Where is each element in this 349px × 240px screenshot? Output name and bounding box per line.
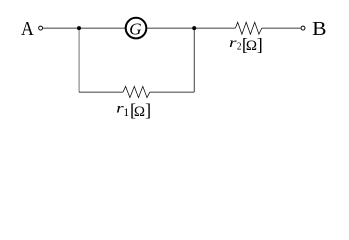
wire galvanometer to node J2 bbox=[146, 27, 194, 29]
galvanometer G (circle) bbox=[126, 18, 147, 39]
svg-text:1: 1 bbox=[123, 105, 129, 119]
wire J1 down (left vertical) bbox=[78, 28, 80, 92]
svg-text:2: 2 bbox=[237, 42, 242, 53]
resistor r2 (zigzag) bbox=[235, 22, 261, 34]
terminal B (open circle) bbox=[301, 26, 305, 30]
wire J1 to galvanometer bbox=[79, 27, 126, 29]
wire J2 to resistor r2 bbox=[194, 27, 235, 29]
svg-text:]: ] bbox=[145, 100, 151, 120]
terminal A (open circle) bbox=[39, 26, 43, 30]
wire resistor r1 to bottom right bbox=[150, 91, 194, 93]
node J1 (junction dot) bbox=[77, 26, 81, 30]
wire r2 to terminal B bbox=[262, 27, 301, 29]
wire bottom left to resistor r1 bbox=[79, 91, 123, 93]
node J2 (junction dot) bbox=[192, 26, 196, 30]
svg-text:B: B bbox=[312, 18, 326, 40]
svg-text:]: ] bbox=[257, 35, 263, 55]
svg-text:G: G bbox=[129, 19, 141, 38]
resistor r1 (zigzag) bbox=[123, 86, 150, 97]
svg-text:Ω: Ω bbox=[134, 104, 145, 120]
svg-text:Ω: Ω bbox=[246, 38, 257, 54]
resistor r2 value label r2[ohm] bbox=[229, 35, 263, 55]
svg-text:A: A bbox=[21, 18, 34, 40]
resistor r1 value label r1[ohm] bbox=[116, 100, 151, 120]
wire A to node J1 bbox=[43, 27, 79, 29]
wire J2 down (right vertical) bbox=[193, 28, 195, 92]
